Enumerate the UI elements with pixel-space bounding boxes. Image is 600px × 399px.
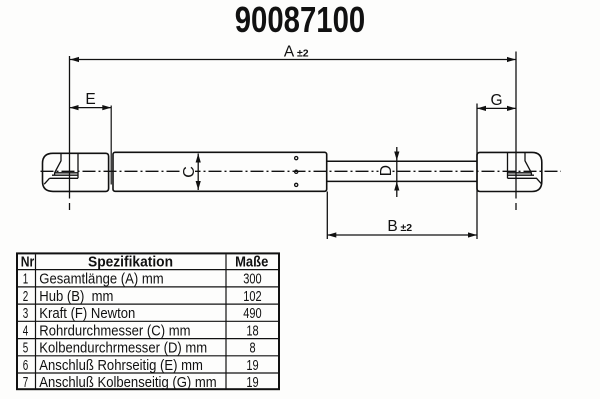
svg-text:E: E	[85, 91, 95, 108]
svg-text:±2: ±2	[297, 48, 309, 60]
svg-text:3: 3	[23, 306, 29, 322]
svg-text:Nr: Nr	[21, 254, 35, 270]
svg-text:90087100: 90087100	[235, 0, 366, 40]
svg-text:2: 2	[23, 289, 29, 305]
svg-text:G: G	[490, 92, 502, 109]
svg-text:A: A	[284, 44, 295, 61]
svg-text:Kolbendurchrmesser (D) mm: Kolbendurchrmesser (D) mm	[39, 341, 207, 357]
svg-text:Rohrdurchmesser (C) mm: Rohrdurchmesser (C) mm	[39, 323, 190, 339]
svg-text:490: 490	[243, 306, 261, 322]
svg-text:C: C	[181, 166, 198, 178]
svg-text:Spezifikation: Spezifikation	[88, 254, 173, 270]
svg-text:Maße: Maße	[235, 254, 268, 270]
svg-text:B: B	[387, 218, 397, 235]
svg-text:Anschluß Rohrseitig (E) mm: Anschluß Rohrseitig (E) mm	[39, 358, 203, 374]
svg-text:Kraft (F) Newton: Kraft (F) Newton	[39, 306, 135, 322]
svg-text:4: 4	[23, 323, 29, 339]
svg-text:19: 19	[246, 358, 258, 374]
svg-text:Hub (B) mm: Hub (B) mm	[39, 289, 113, 305]
svg-text:1: 1	[23, 272, 29, 288]
svg-text:102: 102	[243, 289, 261, 305]
svg-text:300: 300	[243, 272, 261, 288]
svg-text:±2: ±2	[401, 222, 413, 234]
svg-text:7: 7	[23, 375, 29, 391]
svg-text:19: 19	[246, 375, 258, 391]
svg-text:6: 6	[23, 358, 29, 374]
svg-text:5: 5	[23, 341, 29, 357]
svg-text:D: D	[378, 165, 395, 176]
svg-text:8: 8	[249, 341, 255, 357]
svg-text:Gesamtlänge (A) mm: Gesamtlänge (A) mm	[39, 272, 163, 288]
svg-text:Anschluß Kolbenseitig (G) mm: Anschluß Kolbenseitig (G) mm	[39, 375, 216, 391]
svg-text:18: 18	[246, 323, 258, 339]
